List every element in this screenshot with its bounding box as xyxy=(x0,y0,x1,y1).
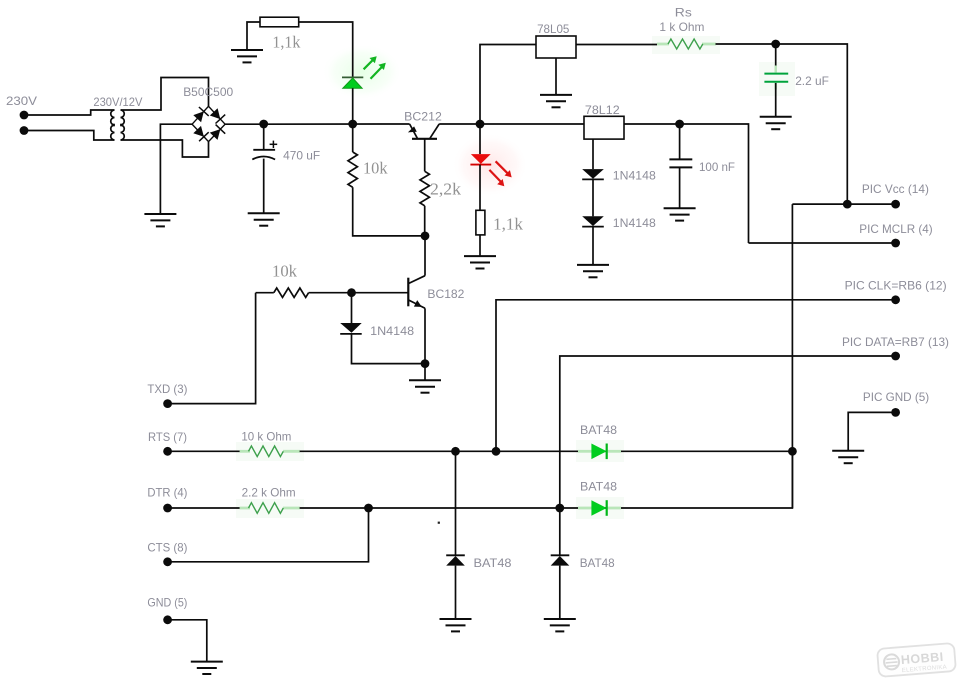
svg-text:BC182: BC182 xyxy=(427,287,464,301)
wire xyxy=(309,292,409,294)
node junction xyxy=(438,522,440,524)
wire xyxy=(592,227,594,265)
resistor R7 2.2 k Ohm xyxy=(240,503,300,514)
resistor R4 value label xyxy=(493,215,523,234)
ground xyxy=(577,265,609,277)
wire xyxy=(716,44,848,204)
wire xyxy=(792,203,895,205)
wire xyxy=(168,620,207,662)
svg-text:1,1k: 1,1k xyxy=(493,215,523,234)
wire xyxy=(455,566,457,619)
ground xyxy=(544,619,576,631)
resistor R3 2,2k xyxy=(420,171,429,206)
svg-text:DTR (4): DTR (4) xyxy=(147,486,187,500)
svg-text:2,2k: 2,2k xyxy=(430,180,462,199)
resistor R6 value label 10 k Ohm xyxy=(241,430,291,444)
diode D8 BAT48 xyxy=(446,555,465,565)
svg-text:1 k Ohm: 1 k Ohm xyxy=(659,20,704,34)
wire xyxy=(299,22,353,77)
node RTS terminal xyxy=(163,447,172,456)
node TXD label xyxy=(147,382,187,396)
wire xyxy=(121,140,209,157)
node junction xyxy=(451,447,460,456)
wire xyxy=(592,179,594,216)
svg-text:10 k Ohm: 10 k Ohm xyxy=(241,430,291,444)
diode D4 1N4148 xyxy=(582,216,604,226)
bridge rectifier B50C500 label xyxy=(183,85,233,99)
node junction xyxy=(843,200,852,209)
svg-text:1,1k: 1,1k xyxy=(272,33,300,52)
node PIC CLK terminal xyxy=(891,295,900,304)
resistor R3 value label xyxy=(430,180,462,199)
wire xyxy=(439,123,584,125)
ground xyxy=(664,208,696,220)
wire xyxy=(480,45,536,125)
wire xyxy=(263,159,265,214)
capacitor C2 2.2uF xyxy=(764,66,788,90)
svg-text:B50C500: B50C500 xyxy=(183,85,233,99)
svg-text:470 uF: 470 uF xyxy=(283,149,320,163)
node PIC DATA terminal xyxy=(891,352,900,361)
capacitor C1 value label xyxy=(283,149,320,163)
wire xyxy=(775,83,777,117)
diode D3 value label xyxy=(613,169,656,183)
ground xyxy=(248,213,280,225)
resistor R2 10k xyxy=(348,152,357,187)
LED D1 light arrows xyxy=(364,56,386,79)
svg-text:230V: 230V xyxy=(6,94,37,108)
wire xyxy=(351,293,353,323)
wire xyxy=(160,124,192,214)
resistor Rs 1 k Ohm xyxy=(657,39,716,49)
svg-text:10k: 10k xyxy=(272,262,297,281)
node junction xyxy=(492,447,501,456)
node junction xyxy=(771,40,780,49)
wire xyxy=(352,124,354,152)
LED D1 green xyxy=(342,77,363,88)
ground xyxy=(440,619,472,631)
resistor R4 1,1k xyxy=(476,210,485,235)
svg-text:1N4148: 1N4148 xyxy=(613,169,656,183)
bridge rectifier B50C500 xyxy=(192,106,225,141)
diode D6 BAT48 label xyxy=(580,423,617,437)
node RTS label xyxy=(148,430,187,444)
node rail junction xyxy=(476,120,485,129)
wire xyxy=(679,167,681,208)
svg-text:10k: 10k xyxy=(363,159,388,178)
node rail junction xyxy=(348,120,357,129)
svg-text:RTS (7): RTS (7) xyxy=(148,430,187,444)
diode D5 1N4148 xyxy=(340,323,362,334)
wire xyxy=(168,508,369,562)
regulator U1 78L05 label xyxy=(537,22,570,36)
wire xyxy=(560,356,896,555)
regulator U2 78L12 label xyxy=(585,103,620,117)
svg-text:230V/12V: 230V/12V xyxy=(93,95,142,109)
wire xyxy=(749,242,896,244)
diode D8 BAT48 label xyxy=(474,556,512,570)
svg-text:1N4148: 1N4148 xyxy=(370,324,414,338)
node junction xyxy=(364,504,373,513)
svg-text:GND (5): GND (5) xyxy=(147,596,187,610)
regulator U2 78L12 xyxy=(584,116,624,139)
wire xyxy=(424,364,426,381)
capacitor C2 value label xyxy=(795,74,829,88)
wire xyxy=(300,450,793,452)
svg-text:BAT48: BAT48 xyxy=(580,423,617,437)
node GND terminal xyxy=(163,615,172,624)
ground xyxy=(231,50,263,62)
svg-text:1N4148: 1N4148 xyxy=(613,216,656,230)
svg-text:Rs: Rs xyxy=(675,6,692,20)
node PIC DATA label xyxy=(842,335,949,349)
node CTS label xyxy=(147,541,187,555)
ground xyxy=(832,451,864,463)
node rail junction xyxy=(675,120,684,129)
wire xyxy=(353,187,425,236)
wire xyxy=(559,566,561,619)
wire xyxy=(496,300,896,452)
wire xyxy=(352,334,426,364)
svg-text:100 nF: 100 nF xyxy=(699,160,735,174)
svg-text:BAT48: BAT48 xyxy=(580,556,615,570)
transistor Q1 BC212 xyxy=(408,124,439,139)
node PIC MCLR label xyxy=(859,222,932,236)
svg-text:PIC CLK=RB6 (12): PIC CLK=RB6 (12) xyxy=(845,279,947,293)
wire xyxy=(424,236,426,276)
node junction xyxy=(555,504,564,513)
transformer T1 label 230V/12V xyxy=(93,95,142,109)
ground xyxy=(191,662,223,674)
wire xyxy=(424,308,426,363)
node DTR label xyxy=(147,486,187,500)
wire xyxy=(775,44,777,72)
node junction xyxy=(788,447,797,456)
wire xyxy=(455,451,457,555)
node TXD terminal xyxy=(163,399,172,408)
node 230V input label xyxy=(6,94,37,108)
diode D6 BAT48 xyxy=(578,444,621,460)
transistor Q2 BC182 xyxy=(408,276,425,309)
resistor R7 value label 2.2 k Ohm xyxy=(242,486,296,500)
wire xyxy=(168,293,256,404)
transistor Q1 BC212 label xyxy=(404,110,442,124)
wire xyxy=(424,206,426,236)
ground xyxy=(144,214,176,226)
node junction xyxy=(347,288,356,297)
wire xyxy=(247,22,260,50)
svg-text:BC212: BC212 xyxy=(404,110,442,124)
wire xyxy=(256,292,274,294)
resistor Rs label xyxy=(675,6,692,20)
wire xyxy=(624,124,749,243)
svg-text:78L05: 78L05 xyxy=(537,22,570,36)
diode D7 BAT48 label xyxy=(580,480,617,494)
node DTR terminal xyxy=(163,504,172,513)
wire xyxy=(24,110,115,115)
capacitor C3 value label xyxy=(699,160,735,174)
node PIC GND label xyxy=(863,390,929,404)
node CTS terminal xyxy=(163,557,172,566)
capacitor C3 100nF xyxy=(669,159,692,167)
resistor R1 value label xyxy=(272,33,300,52)
svg-text:BAT48: BAT48 xyxy=(474,556,512,570)
ground xyxy=(760,117,792,129)
wire xyxy=(300,451,793,508)
wire xyxy=(121,78,209,111)
node rail junction xyxy=(259,120,268,129)
transformer T1 230V/12V xyxy=(111,110,125,140)
diode D5 value label xyxy=(370,324,414,338)
svg-text:PIC MCLR (4): PIC MCLR (4) xyxy=(859,222,932,236)
node junction xyxy=(421,232,430,241)
ground xyxy=(409,380,441,392)
transistor Q2 BC182 label xyxy=(427,287,464,301)
wire xyxy=(168,450,240,452)
diode D3 1N4148 xyxy=(582,169,604,179)
svg-text:2.2 k Ohm: 2.2 k Ohm xyxy=(242,486,296,500)
resistor Rs value label 1 k Ohm xyxy=(659,20,704,34)
node GND label xyxy=(147,596,187,610)
wire xyxy=(479,235,481,256)
node PIC MCLR terminal xyxy=(891,239,900,248)
wire xyxy=(479,124,481,154)
svg-text:PIC Vcc (14): PIC Vcc (14) xyxy=(862,182,929,196)
svg-text:CTS (8): CTS (8) xyxy=(147,541,187,555)
wire xyxy=(225,123,410,125)
wire xyxy=(236,36,795,519)
wire xyxy=(263,124,265,150)
LED D2 red xyxy=(470,154,491,165)
svg-text:TXD (3): TXD (3) xyxy=(147,382,187,396)
wire xyxy=(679,124,681,159)
node 230V terminal top xyxy=(20,111,29,120)
svg-text:78L12: 78L12 xyxy=(585,103,620,117)
wire xyxy=(848,412,895,450)
resistor R5 value label xyxy=(272,262,297,281)
resistor R5 10k xyxy=(274,288,309,297)
svg-text:PIC GND (5): PIC GND (5) xyxy=(863,390,929,404)
svg-text:2.2 uF: 2.2 uF xyxy=(795,74,829,88)
LED D2 light arrows xyxy=(489,161,511,186)
capacitor C1 470uF xyxy=(252,141,277,160)
wire xyxy=(24,131,115,141)
svg-text:BAT48: BAT48 xyxy=(580,480,617,494)
node PIC GND terminal xyxy=(891,408,900,417)
logo Hobbi Elektronika xyxy=(877,643,956,677)
wire xyxy=(592,139,594,169)
node PIC CLK label xyxy=(845,279,947,293)
svg-text:PIC DATA=RB7 (13): PIC DATA=RB7 (13) xyxy=(842,335,949,349)
ground xyxy=(464,256,496,268)
resistor R1 1,1k xyxy=(260,17,299,27)
wire xyxy=(555,58,557,95)
resistor R2 value label xyxy=(363,159,388,178)
node PIC Vcc label xyxy=(862,182,929,196)
wire xyxy=(424,139,426,171)
node junction xyxy=(421,359,430,368)
diode D7 BAT48 xyxy=(578,500,621,516)
wire xyxy=(479,165,481,211)
wire xyxy=(791,204,793,508)
regulator U1 78L05 xyxy=(536,36,576,58)
diode D9 BAT48 label xyxy=(580,556,615,570)
wire xyxy=(168,507,240,509)
wire xyxy=(576,44,657,46)
node PIC Vcc terminal xyxy=(891,200,900,209)
diode D4 value label xyxy=(613,216,656,230)
ground xyxy=(540,95,572,107)
node 230V terminal bottom xyxy=(20,126,29,135)
wire xyxy=(352,88,354,124)
diode D9 BAT48 xyxy=(551,555,570,565)
resistor R6 10 k Ohm xyxy=(240,446,300,457)
